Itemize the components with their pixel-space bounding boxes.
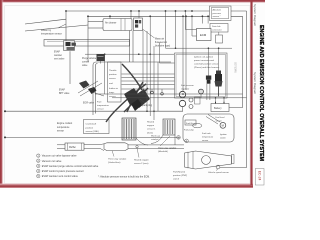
label: fuel temperature sensor [97, 102, 110, 111]
label: warm up three way catalyst [151, 135, 161, 141]
svg-text:sensor: sensor [57, 130, 64, 133]
red page frame : left bar [0, 0, 4, 186]
svg-text:Data link: Data link [212, 25, 221, 28]
label: purge volume control valve [82, 57, 97, 67]
red page frame : top bar [0, 0, 265, 3]
svg-text:System Diagram: System Diagram [253, 72, 257, 95]
wire: slant branch B [25, 25, 88, 31]
svg-text:EVAP: EVAP [59, 89, 65, 92]
air cleaner top stub [109, 16, 111, 18]
svg-text:Heated oxygen: Heated oxygen [134, 159, 149, 162]
svg-text:(Under-floor): (Under-floor) [108, 161, 121, 164]
red page frame : bottom bar [0, 184, 253, 188]
warm-up three way catalyst striped column [163, 119, 175, 135]
svg-text:(Manifold): (Manifold) [158, 151, 168, 153]
fuel damper oval [193, 123, 202, 127]
label: intake air temperature sensor [41, 29, 62, 36]
labels tank [184, 117, 228, 142]
engine assembly outline [93, 62, 171, 115]
horizontal mid line y=54 [85, 53, 174, 55]
svg-text:sensor 1: sensor 1 [147, 128, 156, 131]
ECM box [197, 29, 212, 41]
svg-text:sensor: sensor [202, 139, 209, 142]
svg-text:temp.: temp. [109, 91, 115, 94]
svg-text:temperature: temperature [97, 104, 110, 107]
long fuel line y=111.2 [5, 110, 184, 112]
svg-text:EGR valve: EGR valve [83, 103, 95, 105]
svg-text:Three way catalyst: Three way catalyst [158, 147, 177, 150]
label: mass air flow sensor [155, 38, 170, 48]
svg-text:valve: valve [82, 65, 88, 67]
wire: right vertical to battery [229, 16, 243, 107]
label: three way catalyst manifold [158, 147, 177, 154]
svg-text:position (PNP): position (PNP) [173, 174, 187, 177]
svg-text:temperature sensor: temperature sensor [41, 32, 62, 35]
svg-text:EC-24: EC-24 [257, 171, 261, 181]
mid right horizontal wires [95, 42, 247, 98]
svg-text:System Diagram: System Diagram [253, 4, 257, 27]
engine block with fins [122, 118, 136, 140]
svg-text:Muffler: Muffler [69, 146, 76, 149]
sidebar page box [255, 169, 264, 186]
svg-text:Fuel: Fuel [97, 102, 102, 104]
svg-text:connector: connector [212, 28, 222, 31]
label: PNP switch [173, 171, 187, 181]
svg-text:control: control [82, 61, 89, 64]
label: EVAP BPT valve [59, 89, 70, 96]
circled 1 at tank line [185, 139, 189, 143]
svg-text:catalyst: catalyst [151, 138, 159, 141]
absolute pressure sensor box [210, 6, 232, 21]
muffler [65, 143, 84, 150]
long evap line y=137.4 [5, 136, 181, 138]
crankshaft position sensor box [84, 120, 110, 134]
label: EVAP canister vent valve [54, 51, 65, 61]
svg-text:Mass air: Mass air [155, 38, 164, 41]
svg-text:Intake air: Intake air [109, 87, 118, 90]
svg-text:temperature: temperature [202, 135, 214, 138]
junction dots on top lines [65, 10, 209, 17]
wire: second feed line y=16.3 [88, 15, 243, 17]
svg-text:(front): (front) [147, 131, 153, 134]
fuel pump motor circle [220, 122, 226, 128]
spark plug symbol [206, 76, 211, 101]
vertical wires top right [131, 11, 224, 104]
svg-text:EVAP canister purge volume con: EVAP canister purge volume control solen… [42, 165, 99, 168]
svg-text:*: Absolute pressure sensor is: *: Absolute pressure sensor is built int… [98, 175, 150, 178]
svg-text:Warm-up: Warm-up [151, 135, 161, 138]
leaders for catalyst labels [112, 136, 170, 158]
svg-text:Purge volume: Purge volume [82, 57, 97, 60]
svg-text:switch: switch [173, 178, 180, 181]
svg-text:temperature: temperature [57, 126, 70, 129]
svg-text:regulator: regulator [181, 87, 190, 90]
wire: slant branch A [25, 19, 66, 24]
fuel filter box [185, 120, 196, 125]
svg-text:Battery: Battery [214, 107, 222, 110]
svg-text:EVAP control system pressure s: EVAP control system pressure sensor [42, 170, 84, 173]
filler pipe [206, 115, 220, 125]
svg-text:position: position [86, 126, 94, 129]
svg-text:Vacuum cut valve bypass valve: Vacuum cut valve bypass valve [42, 155, 77, 158]
label: three way catalyst under floor [108, 158, 127, 165]
svg-text:pressure: pressure [213, 12, 222, 15]
intake manifold curves [106, 64, 148, 122]
svg-text:M: M [222, 124, 224, 128]
mass air flow sensor body [134, 18, 143, 31]
air cleaner box [103, 19, 132, 31]
svg-text:ECM: ECM [200, 33, 207, 37]
svg-text:Fuel tank: Fuel tank [202, 132, 212, 135]
three way catalyst under floor bulge [104, 143, 128, 151]
ignition big box [175, 53, 228, 98]
label: heated oxygen sensor 1 front [147, 121, 156, 135]
wire: vent valve drop [65, 11, 67, 41]
intake duct [44, 31, 133, 63]
svg-text:Heated: Heated [147, 121, 155, 124]
svg-text:Engine coolant: Engine coolant [57, 122, 73, 125]
svg-text:Ignition: Ignition [220, 133, 228, 136]
svg-text:Three way catalyst: Three way catalyst [108, 158, 127, 161]
svg-text:Ignition coil, ignition: Ignition coil, ignition [194, 56, 214, 59]
svg-text:(hot wire type): (hot wire type) [155, 45, 170, 48]
label: heated oxygen sensor 2 rear [134, 159, 149, 166]
injector symbol [215, 71, 223, 97]
svg-text:Crankshaft: Crankshaft [86, 123, 97, 126]
svg-text:power transistor and: power transistor and [194, 59, 215, 62]
svg-text:oxygen: oxygen [147, 125, 155, 127]
svg-text:Fuel level: Fuel level [216, 117, 225, 119]
wire: engine drop [87, 16, 89, 62]
label: ignition coil block [194, 56, 220, 70]
svg-text:sensor (OBD): sensor (OBD) [86, 130, 100, 133]
svg-text:Vehicle speed sensor: Vehicle speed sensor [208, 171, 229, 174]
faint page edge frame [5, 6, 250, 184]
svg-text:sensor *: sensor * [213, 15, 221, 18]
svg-text:Fuel pump: Fuel pump [184, 130, 195, 132]
throttle/intake column box [108, 62, 122, 102]
svg-text:sensor: sensor [216, 119, 223, 122]
svg-text:Park/Neutral: Park/Neutral [173, 171, 186, 174]
svg-text:Throttle: Throttle [109, 69, 117, 72]
wire: right tall vertical to vehicle speed sensor [220, 11, 247, 168]
svg-text:sensor: sensor [109, 77, 116, 80]
purge control valve cluster [179, 16, 200, 111]
fuel pressure regulator [199, 89, 204, 98]
rear oxygen sensor dot on pipe [136, 145, 138, 147]
exhaust mid pipe [84, 144, 104, 151]
label: engine coolant temperature sensor [57, 122, 73, 133]
circled 1 at evap line [177, 136, 181, 140]
svg-text:Vacuum cut valve: Vacuum cut valve [42, 160, 62, 163]
svg-text:Absolute: Absolute [213, 9, 222, 12]
battery [211, 102, 229, 112]
svg-text:Air cleaner: Air cleaner [105, 22, 117, 25]
wire: top feed line y=11 [66, 10, 247, 12]
exhaust pipe left stub [57, 145, 65, 149]
leader for intake air temp label [58, 24, 66, 28]
exhaust runner curve from block to pipe [136, 135, 175, 145]
legend list bottom left [37, 154, 99, 178]
exhaust pipe right [128, 145, 184, 149]
svg-text:SEF309W: SEF309W [234, 62, 237, 74]
svg-text:vent valve: vent valve [54, 58, 65, 61]
svg-text:sensor: sensor [97, 108, 104, 111]
data link connector box [210, 24, 228, 44]
transmission [185, 151, 235, 169]
svg-text:sensor 2 (rear): sensor 2 (rear) [134, 162, 149, 165]
svg-text:EVAP canister vent control val: EVAP canister vent control valve [42, 175, 79, 178]
svg-text:EVAP: EVAP [54, 51, 60, 54]
fuel tank outline [183, 114, 234, 142]
red page frame : right divider [250, 1, 252, 185]
svg-text:Driven by: Driven by [41, 29, 52, 32]
svg-text:ENGINE AND EMISSION CONTROL OV: ENGINE AND EMISSION CONTROL OVERALL SYST… [258, 25, 264, 161]
check valve symbols [151, 89, 164, 95]
svg-text:(Phase) and their harness: (Phase) and their harness [194, 66, 220, 69]
svg-text:BPT valve: BPT valve [59, 93, 70, 95]
EVAP BPT valve dark cluster [78, 81, 104, 97]
svg-text:canister: canister [54, 54, 62, 57]
svg-text:switch: switch [220, 136, 227, 139]
injector / fuel rail dark slant [124, 88, 140, 105]
svg-text:Fuel pressure: Fuel pressure [181, 84, 195, 87]
wire from vent valve down [69, 51, 71, 84]
leader maf label [143, 29, 155, 38]
svg-text:position: position [109, 73, 117, 76]
EVAP canister vent control valve on duct [64, 41, 76, 51]
svg-text:camshaft position sensor: camshaft position sensor [194, 63, 218, 66]
purge solenoid valve on line [97, 54, 105, 64]
air cleaner inlet stubs [88, 21, 103, 23]
vertical wire bundle center [143, 16, 158, 120]
